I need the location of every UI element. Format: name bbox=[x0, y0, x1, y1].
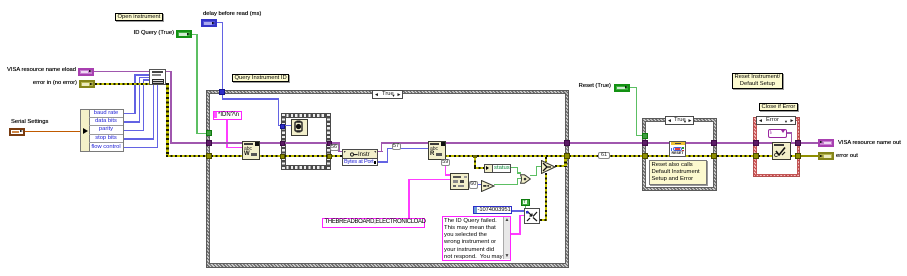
control Serial Settings : terminal cluster bbox=[9, 128, 25, 136]
wire stop bits bbox=[124, 138, 154, 140]
inner flat sequence frame (filmstrip) bbox=[281, 113, 331, 118]
wires through reset case bbox=[647, 142, 712, 144]
tunnel error error case left bbox=[753, 153, 759, 159]
wire error error case -> output terminal bbox=[800, 155, 818, 157]
selector terminal (green ?) on left border bbox=[206, 130, 212, 136]
control error in (no error) : label bbox=[33, 80, 77, 87]
error main row from read to right border bbox=[440, 155, 566, 157]
reset case structure bbox=[642, 118, 717, 191]
tunnel purple frame right bbox=[327, 141, 332, 146]
tunnel purple reset case left bbox=[642, 140, 648, 146]
wire VISA resource name (purple, into configure icon) bbox=[94, 71, 149, 73]
tunnel blue on frame left border bbox=[280, 124, 285, 130]
match pattern icon bbox=[450, 173, 469, 190]
wire error select out -> right tunnel bbox=[555, 165, 566, 167]
error case structure (Close if Error) bbox=[753, 117, 800, 177]
big case structure (Open instrument / Query ID) bbox=[206, 90, 569, 268]
wire error: configure -> down -> case tunnel bbox=[166, 83, 168, 156]
control Serial Settings : label bbox=[11, 119, 48, 126]
wire error between big case and reset case bbox=[569, 155, 643, 157]
wire serial settings (orange) bbox=[25, 131, 82, 133]
tunnel purple error case right bbox=[795, 140, 801, 146]
VISA Write VI icon bbox=[242, 141, 260, 160]
string constant THEBREADBOARD,ELECTRONICLOAD bbox=[322, 218, 425, 228]
tunnel blue on top border bbox=[219, 89, 225, 95]
wire blue delay -> top tunnel bbox=[217, 22, 223, 24]
comparator triangle bbox=[481, 179, 495, 191]
wire parity bbox=[124, 130, 144, 132]
tunnel error frame right bbox=[327, 154, 332, 159]
tunnel purple error case left bbox=[753, 140, 759, 146]
control delay before read (ms) : label bbox=[203, 11, 261, 18]
boolean constant T bbox=[521, 199, 530, 206]
wire purple: configure -> down -> case tunnel bbox=[166, 71, 172, 73]
wire green ID Query -> selector tunnel bbox=[192, 34, 198, 36]
wire label 56 bbox=[330, 144, 339, 152]
junction on error wire bbox=[473, 155, 477, 158]
purple main row inside case (left part) bbox=[211, 142, 340, 144]
wire green OR -> select bbox=[530, 175, 537, 176]
control VISA resource name eload : label bbox=[7, 67, 76, 74]
wire label 61 bbox=[598, 152, 610, 160]
wire label 57 bbox=[392, 143, 401, 151]
tunnel error error case right bbox=[795, 153, 801, 159]
error cluster builder node bbox=[524, 208, 540, 224]
VISA Configure Serial Port VI icon bbox=[149, 69, 166, 85]
numeric constant -1074003951 bbox=[473, 206, 512, 214]
wire blue delay inside case bbox=[222, 95, 224, 100]
wire label 60 bbox=[469, 181, 479, 189]
error case selector bbox=[756, 116, 796, 125]
free label Query Instrument ID bbox=[232, 74, 289, 82]
tunnel purple frame left bbox=[280, 141, 285, 146]
tunnel error reset case right bbox=[711, 153, 717, 159]
wires inside error case bbox=[758, 142, 774, 144]
control error in (no error) : terminal bbox=[79, 80, 95, 88]
reset case selector True bbox=[665, 116, 694, 125]
wire green status -> OR bbox=[511, 167, 518, 168]
wire purple between big case and reset case bbox=[569, 142, 643, 144]
wire label 59 bbox=[441, 159, 451, 167]
wire blue match offset -> comparator bbox=[467, 184, 481, 186]
free label Close if Error bbox=[759, 103, 798, 111]
wire green comparator -> OR bbox=[494, 184, 518, 185]
wire error branch down to unbundle bbox=[474, 156, 476, 168]
control ID Query (True) : label bbox=[134, 30, 174, 37]
control Reset (True) : terminal TF bbox=[614, 84, 630, 92]
wire green reset -> case selector bbox=[630, 87, 637, 89]
OR gate bbox=[520, 171, 531, 181]
control VISA resource name eload : terminal bbox=[78, 68, 94, 76]
wire error select bottom from builder bbox=[545, 173, 547, 221]
indicator VISA resource name out : terminal bbox=[818, 139, 834, 147]
wire pink breadboard -> match bbox=[408, 179, 410, 219]
tunnel purple reset case right bbox=[711, 140, 717, 146]
error main row inside case (write->prop node) bbox=[211, 155, 342, 157]
wire pink message -> builder bbox=[511, 233, 521, 235]
purple main row (right part, to right border) bbox=[381, 142, 566, 144]
indicator error out : label bbox=[836, 153, 858, 160]
wire error into select top bbox=[545, 157, 547, 162]
free label Reset Instrument/Default Setup bbox=[732, 73, 783, 89]
VISA Close VI icon bbox=[772, 142, 791, 160]
VISA class constant bbox=[768, 129, 787, 138]
purple dip to property node bbox=[338, 142, 340, 152]
wait(ms) icon inside frame bbox=[291, 119, 308, 136]
comment Reset also calls... bbox=[649, 160, 707, 185]
tunnel error right border bbox=[564, 153, 570, 159]
string constant ID Query failed message with scrollbar bbox=[442, 216, 511, 261]
free label Open instrument bbox=[115, 13, 163, 21]
big case selector True bbox=[372, 90, 403, 99]
wire pink IDN -> write bbox=[226, 120, 228, 148]
wire baud rate (blue) bbox=[124, 113, 135, 115]
unbundle by name cluster (baud rate...) bbox=[80, 109, 124, 152]
wire purple between reset case and error case bbox=[717, 142, 753, 144]
tunnel error reset case left bbox=[642, 153, 648, 159]
wire flow control bbox=[124, 147, 158, 149]
string constant *IDN?\n bbox=[213, 111, 242, 120]
tunnel purple right border bbox=[564, 140, 570, 146]
VISA Read VI icon bbox=[428, 141, 446, 160]
indicator error out : terminal bbox=[818, 152, 834, 160]
control delay before read (ms) : terminal I32 bbox=[201, 19, 217, 27]
unbundle by name: status bbox=[484, 164, 511, 173]
control Reset (True) : label bbox=[579, 83, 611, 90]
property node Bytes at Port bbox=[342, 149, 378, 166]
wire error in (dashes) bbox=[95, 83, 149, 85]
wire purple class constant -> out tunnel bbox=[787, 132, 792, 134]
select function bbox=[541, 160, 556, 174]
indicator VISA resource name out : label bbox=[838, 140, 901, 147]
wire error between reset case and error case bbox=[717, 155, 753, 157]
tunnel purple left border bbox=[206, 140, 212, 146]
tunnel error left border bbox=[206, 153, 212, 159]
wire purple error case -> output terminal bbox=[800, 142, 818, 144]
reset case selector terminal (green) bbox=[642, 133, 648, 139]
wire data bits bbox=[124, 121, 140, 123]
Reset VI icon bbox=[669, 141, 686, 157]
wire blue bytes out -> up -> read bbox=[378, 161, 388, 163]
wire pink read string out bbox=[445, 146, 447, 175]
control ID Query (True) : terminal TF bbox=[176, 30, 192, 38]
tunnel error frame left bbox=[280, 154, 285, 159]
